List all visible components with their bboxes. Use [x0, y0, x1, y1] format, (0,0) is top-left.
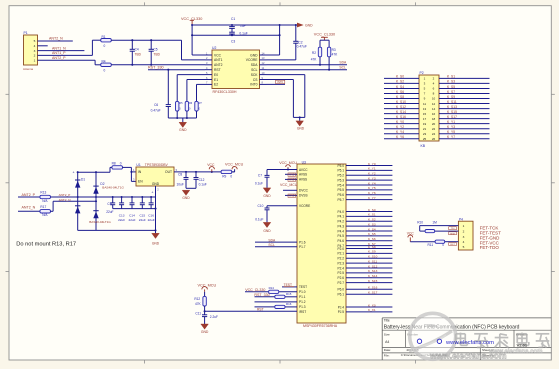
svg-text:0.47uF: 0.47uF — [297, 45, 307, 49]
svg-text:3: 3 — [34, 49, 36, 53]
svg-text:0: 0 — [104, 68, 106, 72]
svg-text:10: 10 — [432, 97, 436, 101]
svg-text:C9: C9 — [107, 202, 111, 206]
svg-text:K_S5: K_S5 — [447, 85, 455, 89]
svg-text:SCL: SCL — [268, 243, 275, 247]
svg-text:1M: 1M — [432, 221, 437, 225]
svg-text:INT0: INT0 — [277, 81, 283, 84]
svg-text:11: 11 — [423, 102, 426, 106]
svg-text:ANT2_P: ANT2_P — [59, 193, 71, 197]
svg-text:RF430CL330H: RF430CL330H — [213, 90, 237, 94]
svg-text:PJ.5: PJ.5 — [338, 310, 345, 314]
svg-text:C6: C6 — [154, 103, 158, 107]
svg-text:VCC_MCU: VCC_MCU — [225, 163, 244, 167]
svg-text:K_Y3: K_Y3 — [447, 125, 455, 129]
svg-text:N/A: N/A — [42, 199, 48, 203]
svg-text:ANT1_N: ANT1_N — [52, 46, 66, 50]
svg-text:K_S5: K_S5 — [368, 232, 376, 236]
svg-text:P1.7: P1.7 — [299, 245, 306, 249]
svg-text:13: 13 — [423, 107, 427, 111]
svg-text:AVCC: AVCC — [299, 168, 308, 172]
svg-text:C15: C15 — [139, 213, 145, 217]
svg-text:TEST: TEST — [299, 285, 307, 289]
svg-text:22: 22 — [432, 127, 436, 131]
svg-text:ANT2: ANT2 — [214, 63, 223, 67]
svg-text:K_S17: K_S17 — [368, 291, 378, 295]
svg-text:C10: C10 — [258, 204, 264, 208]
svg-text:TEST: TEST — [450, 233, 456, 235]
svg-text:P4.1: P4.1 — [338, 215, 345, 219]
svg-text:P5.5: P5.5 — [338, 188, 345, 192]
svg-text:K_S15: K_S15 — [368, 279, 378, 283]
svg-text:R4: R4 — [102, 59, 106, 63]
svg-text:E0: E0 — [214, 73, 218, 77]
svg-text:K_S1: K_S1 — [447, 75, 455, 79]
svg-text:P2.5: P2.5 — [338, 271, 345, 275]
svg-text:24: 24 — [432, 132, 436, 136]
svg-text:K_Y6: K_Y6 — [368, 191, 376, 195]
svg-text:AVSS: AVSS — [299, 178, 307, 182]
svg-text:BAS40-04LT1G: BAS40-04LT1G — [89, 220, 111, 224]
svg-text:MSP430FR5736RHA: MSP430FR5736RHA — [303, 324, 338, 328]
svg-text:GND: GND — [263, 229, 271, 233]
svg-text:TEST: TEST — [284, 283, 292, 287]
svg-text:SDA: SDA — [339, 61, 347, 65]
svg-text:K_S16: K_S16 — [368, 286, 378, 290]
svg-text:P2.4: P2.4 — [338, 266, 345, 270]
svg-text:P4.4: P4.4 — [338, 229, 345, 233]
svg-text:P4.2: P4.2 — [338, 220, 345, 224]
svg-text:VCORE: VCORE — [299, 204, 310, 208]
svg-text:RST: RST — [450, 244, 455, 246]
svg-text:www.elecfans.com: www.elecfans.com — [488, 349, 542, 355]
svg-text:K_S12: K_S12 — [368, 264, 378, 268]
svg-text:5: 5 — [463, 245, 465, 249]
svg-text:VCC_CL330: VCC_CL330 — [245, 288, 265, 292]
svg-text:RST: RST — [214, 68, 221, 72]
svg-text:VCC_CL330: VCC_CL330 — [314, 32, 335, 36]
svg-text:K_S4: K_S4 — [396, 85, 404, 89]
svg-text:K_Y5: K_Y5 — [447, 130, 455, 134]
svg-text:K_S9: K_S9 — [447, 95, 455, 99]
svg-text:OUT: OUT — [165, 170, 172, 174]
svg-text:2.2uF: 2.2uF — [210, 315, 218, 319]
svg-text:+: + — [73, 170, 75, 174]
svg-text:25: 25 — [423, 137, 427, 141]
svg-text:21: 21 — [423, 127, 427, 131]
svg-text:0: 0 — [230, 175, 232, 179]
svg-text:R8: R8 — [112, 161, 116, 165]
svg-text:U3: U3 — [302, 160, 306, 164]
svg-text:C8: C8 — [178, 173, 182, 177]
svg-text:R11: R11 — [428, 243, 434, 247]
svg-text:P4.6: P4.6 — [338, 239, 345, 243]
svg-text:GND: GND — [152, 182, 160, 186]
svg-text:0: 0 — [104, 44, 106, 48]
svg-text:V2.01: V2.01 — [517, 342, 528, 347]
svg-text:K_Y7: K_Y7 — [368, 196, 376, 200]
svg-text:K_Y0: K_Y0 — [368, 162, 376, 166]
svg-text:K_S1: K_S1 — [368, 213, 376, 217]
svg-text:1: 1 — [34, 58, 36, 62]
svg-text:K_S15: K_S15 — [447, 110, 457, 114]
svg-text:K_S8: K_S8 — [368, 245, 376, 249]
svg-text:ANT2_N: ANT2_N — [49, 36, 63, 40]
svg-text:Do not mount R13, R17: Do not mount R13, R17 — [16, 241, 76, 247]
svg-text:SCK: SCK — [251, 73, 259, 77]
svg-text:K_S3: K_S3 — [447, 80, 455, 84]
svg-text:P5.4: P5.4 — [338, 183, 345, 187]
svg-text:22uF: 22uF — [128, 218, 135, 222]
svg-text:10uF: 10uF — [177, 182, 184, 186]
svg-text:GND: GND — [289, 179, 295, 182]
svg-text:VCC: VCC — [214, 53, 222, 57]
svg-text:BAS40-04LT1G: BAS40-04LT1G — [102, 186, 124, 190]
svg-text:TBD: TBD — [154, 53, 161, 57]
svg-text:INT0: INT0 — [250, 83, 257, 87]
svg-text:GND: GND — [152, 241, 160, 245]
svg-text:47K: 47K — [332, 52, 339, 56]
svg-text:P4.5: P4.5 — [338, 234, 345, 238]
svg-text:A4: A4 — [385, 340, 389, 344]
svg-text:K_S6: K_S6 — [396, 90, 404, 94]
svg-text:GND: GND — [182, 196, 190, 200]
svg-text:P1.2: P1.2 — [299, 300, 306, 304]
svg-text:DVSS: DVSS — [299, 194, 308, 198]
svg-text:K_X0: K_X0 — [368, 303, 376, 307]
svg-text:R9: R9 — [222, 175, 226, 179]
svg-text:C4: C4 — [135, 48, 139, 52]
svg-text:R3: R3 — [332, 48, 336, 52]
svg-text:P4: P4 — [459, 217, 463, 221]
svg-text:SCL: SCL — [251, 68, 258, 72]
svg-text:C3: C3 — [231, 40, 235, 44]
svg-text:P4.0: P4.0 — [338, 210, 345, 214]
svg-text:0.1uF: 0.1uF — [255, 217, 263, 221]
svg-text:P5.0: P5.0 — [338, 164, 345, 168]
svg-text:47K: 47K — [311, 57, 318, 61]
svg-text:K_S14: K_S14 — [396, 110, 406, 114]
svg-text:R10: R10 — [417, 221, 423, 225]
svg-text:1uF: 1uF — [240, 24, 246, 28]
svg-text:C12: C12 — [199, 178, 205, 182]
svg-text:18: 18 — [432, 117, 436, 121]
svg-text:P2.1: P2.1 — [338, 252, 345, 256]
svg-text:P2.0: P2.0 — [338, 247, 345, 251]
svg-text:P1.0: P1.0 — [299, 290, 306, 294]
svg-text:/RST: /RST — [299, 310, 306, 314]
svg-text:15: 15 — [423, 112, 427, 116]
svg-text:R17: R17 — [40, 205, 46, 209]
svg-text:P6.0: P6.0 — [338, 288, 345, 292]
svg-text:R1: R1 — [102, 35, 106, 39]
svg-text:22uF: 22uF — [106, 210, 113, 214]
svg-text:R14: R14 — [269, 286, 275, 290]
svg-text:K_S9: K_S9 — [368, 250, 376, 254]
svg-text:0.47uF: 0.47uF — [151, 109, 161, 113]
svg-text:EN: EN — [138, 180, 143, 184]
svg-text:R12: R12 — [194, 297, 200, 301]
svg-text:2: 2 — [34, 54, 36, 58]
svg-text:DVCC: DVCC — [299, 189, 309, 193]
svg-text:P5.2: P5.2 — [338, 174, 345, 178]
svg-text:GND: GND — [289, 195, 295, 198]
svg-text:K_S2: K_S2 — [396, 80, 404, 84]
svg-text:K_S0: K_S0 — [396, 75, 404, 79]
svg-text:12: 12 — [432, 102, 436, 106]
svg-text:N/A: N/A — [42, 213, 48, 217]
svg-text:P2.2: P2.2 — [338, 257, 345, 261]
svg-text:P2: P2 — [420, 71, 424, 75]
svg-text:Date:: Date: — [384, 348, 391, 352]
svg-text:C7: C7 — [258, 174, 262, 178]
svg-text:AVSS: AVSS — [299, 173, 307, 177]
svg-text:R13: R13 — [40, 191, 46, 195]
svg-text:FET-TDO: FET-TDO — [480, 245, 500, 250]
svg-text:17: 17 — [423, 117, 427, 121]
svg-text:0.1uF: 0.1uF — [199, 182, 207, 186]
svg-text:R16: R16 — [286, 302, 292, 306]
svg-text:1: 1 — [463, 224, 465, 228]
svg-text:P6.1: P6.1 — [338, 292, 345, 296]
svg-text:K_S6: K_S6 — [368, 237, 376, 241]
svg-text:File:: File: — [384, 353, 390, 357]
svg-text:U1: U1 — [136, 163, 140, 167]
svg-text:K_Y4: K_Y4 — [396, 130, 404, 134]
svg-text:K_S17: K_S17 — [447, 115, 457, 119]
svg-text:RST_330: RST_330 — [148, 66, 164, 70]
svg-text:K_S2: K_S2 — [368, 218, 376, 222]
svg-text:16: 16 — [432, 112, 436, 116]
svg-text:SDA: SDA — [251, 63, 259, 67]
svg-text:K_Y0: K_Y0 — [396, 120, 404, 124]
svg-text:P1: P1 — [24, 31, 28, 35]
svg-text:P5.1: P5.1 — [338, 169, 345, 173]
svg-text:ANT1_P: ANT1_P — [52, 51, 66, 55]
svg-text:GND: GND — [297, 127, 305, 131]
svg-text:Title: Title — [384, 319, 390, 323]
svg-text:GND: GND — [201, 330, 209, 334]
svg-text:P5.7: P5.7 — [338, 198, 345, 202]
svg-text:C11: C11 — [195, 311, 201, 315]
svg-text:K_S11: K_S11 — [368, 259, 377, 263]
svg-text:K_S7: K_S7 — [447, 90, 455, 94]
svg-text:RST: RST — [257, 307, 264, 311]
svg-text:3: 3 — [463, 235, 465, 239]
svg-text:22uF: 22uF — [148, 218, 155, 222]
svg-text:TBD: TBD — [135, 53, 142, 57]
svg-text:C5: C5 — [154, 48, 158, 52]
svg-text:K_S16: K_S16 — [396, 115, 406, 119]
svg-text:SDA: SDA — [268, 238, 276, 242]
svg-text:+: + — [151, 190, 153, 194]
svg-text:0.1uF: 0.1uF — [239, 32, 247, 36]
svg-text:PJ.4: PJ.4 — [338, 305, 345, 309]
svg-text:22uF: 22uF — [118, 218, 125, 222]
svg-text:K_S13: K_S13 — [447, 105, 457, 109]
svg-text:R2: R2 — [312, 51, 316, 55]
svg-text:K_Y2: K_Y2 — [396, 125, 404, 129]
svg-text:14: 14 — [432, 107, 436, 111]
svg-text:P2.6: P2.6 — [338, 276, 345, 280]
svg-text:ANT2_N: ANT2_N — [59, 198, 71, 202]
svg-text:Size: Size — [384, 332, 390, 336]
svg-text:P2.3: P2.3 — [338, 261, 345, 265]
svg-text:GND: GND — [289, 174, 295, 177]
svg-text:20: 20 — [432, 122, 436, 126]
svg-text:5: 5 — [34, 39, 36, 43]
svg-text:VCC_MCU: VCC_MCU — [280, 183, 298, 187]
svg-text:K_Y1: K_Y1 — [447, 120, 455, 124]
svg-text:K_X1: K_X1 — [368, 308, 376, 312]
svg-text:P1.1: P1.1 — [299, 295, 306, 299]
svg-text:TPS78930DBV: TPS78930DBV — [145, 163, 169, 167]
svg-text:0: 0 — [442, 243, 444, 247]
svg-text:K_S11: K_S11 — [447, 100, 457, 104]
svg-text:GND: GND — [263, 194, 271, 198]
svg-text:TDI: TDI — [451, 228, 455, 230]
svg-text:R15: R15 — [286, 292, 292, 296]
svg-text:P4.3: P4.3 — [338, 224, 345, 228]
svg-text:K_S8: K_S8 — [396, 95, 404, 99]
svg-text:P5.3: P5.3 — [338, 178, 345, 182]
svg-text:CS: CS — [253, 78, 258, 82]
svg-text:K_S10: K_S10 — [396, 100, 406, 104]
svg-text:GND: GND — [305, 24, 313, 28]
svg-text:E1: E1 — [214, 78, 218, 82]
svg-text:K_Y1: K_Y1 — [368, 167, 376, 171]
svg-text:C14: C14 — [129, 213, 135, 217]
svg-text:K_Y6: K_Y6 — [396, 135, 404, 139]
svg-text:P2.7: P2.7 — [338, 281, 345, 285]
svg-text:SCL: SCL — [339, 66, 346, 70]
svg-text:0.1uF: 0.1uF — [255, 182, 263, 186]
svg-text:47K: 47K — [195, 302, 202, 306]
svg-text:P1.6: P1.6 — [299, 240, 306, 244]
svg-text:C13: C13 — [119, 213, 125, 217]
svg-text:26: 26 — [432, 137, 436, 141]
svg-text:23: 23 — [423, 132, 427, 136]
svg-text:K_S4: K_S4 — [368, 227, 376, 231]
svg-text:K_S3: K_S3 — [368, 222, 376, 226]
svg-text:C16: C16 — [148, 213, 154, 217]
svg-text:GND: GND — [179, 128, 187, 132]
svg-text:22uF: 22uF — [139, 218, 146, 222]
svg-text:K_Y4: K_Y4 — [368, 181, 376, 185]
svg-text:19: 19 — [423, 122, 427, 126]
svg-text:ANT1: ANT1 — [214, 58, 223, 62]
svg-text:K_S10: K_S10 — [368, 255, 378, 259]
svg-text:K_S0: K_S0 — [368, 208, 376, 212]
svg-text:0: 0 — [120, 161, 122, 165]
svg-text:2: 2 — [463, 229, 465, 233]
svg-text:www.elecfans.com: www.elecfans.com — [445, 340, 494, 346]
svg-text:4: 4 — [34, 44, 36, 48]
svg-text:U2: U2 — [212, 46, 216, 50]
svg-text:K_Y3: K_Y3 — [368, 176, 376, 180]
svg-text:K_Y5: K_Y5 — [368, 186, 376, 190]
svg-text:C1: C1 — [231, 17, 235, 21]
svg-text:GND: GND — [250, 53, 258, 57]
svg-text:E2: E2 — [214, 83, 218, 87]
svg-text:K_Y7: K_Y7 — [447, 135, 455, 139]
svg-text:Antenna: Antenna — [23, 67, 34, 71]
svg-text:P1.3: P1.3 — [299, 305, 306, 309]
svg-text:K_S13: K_S13 — [368, 269, 378, 273]
svg-text:K_S12: K_S12 — [396, 105, 406, 109]
svg-text:D1: D1 — [81, 177, 85, 181]
svg-text:KB: KB — [421, 144, 426, 148]
svg-text:P5.6: P5.6 — [338, 193, 345, 197]
svg-text:K_Y2: K_Y2 — [368, 172, 376, 176]
svg-text:ANT2_P: ANT2_P — [52, 56, 66, 60]
svg-text:4: 4 — [463, 240, 465, 244]
svg-text:RST_330: RST_330 — [254, 293, 269, 297]
svg-text:VCORE: VCORE — [246, 58, 259, 62]
svg-text:K_S14: K_S14 — [368, 274, 378, 278]
svg-text:ANT2_N: ANT2_N — [22, 206, 36, 210]
